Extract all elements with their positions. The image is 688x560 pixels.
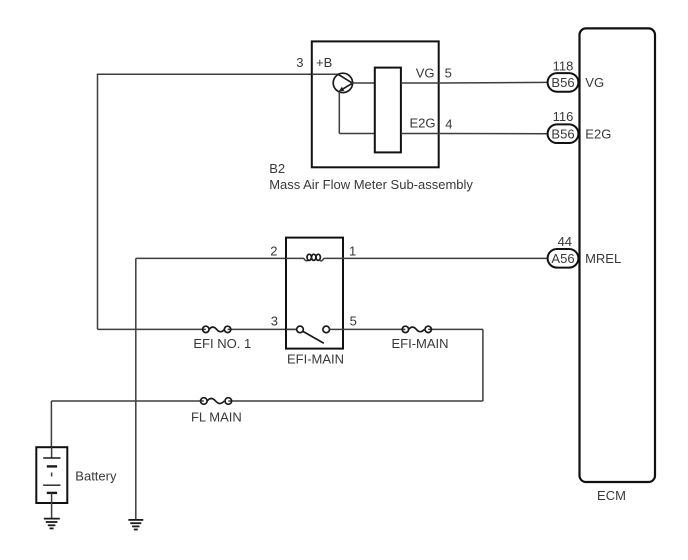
svg-text:4: 4 <box>445 116 452 131</box>
svg-text:E2G: E2G <box>585 127 611 142</box>
relay coil (pins 2-1) <box>286 254 343 261</box>
svg-text:VG: VG <box>585 75 604 90</box>
svg-text:2: 2 <box>270 244 277 259</box>
MAF VG pin label <box>416 66 435 81</box>
svg-text:MREL: MREL <box>585 251 621 266</box>
MAF internal wire circle bottom to element (E2G side) <box>339 92 375 134</box>
MAF internal wire circle to element (VG side) <box>353 82 375 84</box>
connector oval B56 pin VG <box>548 73 579 92</box>
pin number 118 <box>553 58 574 73</box>
svg-text:A56: A56 <box>551 251 574 266</box>
wire vertical ground bus x=136 from relay pin2 wire down to ground <box>135 258 137 519</box>
label relay EFI-MAIN <box>287 351 344 366</box>
wire MREL branch: vertical bus x=136 to relay pin 2 <box>136 257 286 259</box>
relay switch contacts (pins 3-5) <box>286 326 343 343</box>
relay pin 2 number <box>270 244 277 259</box>
MAF sensor B2 box <box>312 41 439 167</box>
svg-text:5: 5 <box>350 313 357 328</box>
ground symbol under x=136 bus <box>128 520 143 530</box>
svg-text:B56: B56 <box>551 126 574 141</box>
svg-text:5: 5 <box>445 66 452 81</box>
connector oval A56 pin MREL <box>548 249 579 268</box>
ECM pin name E2G <box>585 127 611 142</box>
svg-text:+B: +B <box>316 55 332 70</box>
relay pin 5 number <box>350 313 357 328</box>
svg-text:B56: B56 <box>551 75 574 90</box>
wire E2G to ECM connector <box>439 133 548 135</box>
svg-text:3: 3 <box>271 313 278 328</box>
relay EFI-MAIN box <box>286 238 343 349</box>
pin number 44 <box>558 234 572 249</box>
svg-text:3: 3 <box>296 55 303 70</box>
fuse EFI-MAIN (right) <box>402 326 431 332</box>
MAF E2G pin label <box>409 115 435 130</box>
connector oval B56 pin E2G <box>548 124 579 143</box>
svg-text:Battery: Battery <box>75 469 117 484</box>
label Battery <box>75 469 117 484</box>
svg-text:118: 118 <box>553 58 574 73</box>
wire MAF element to E2G output <box>401 133 439 135</box>
svg-text:116: 116 <box>553 109 574 124</box>
svg-text:1: 1 <box>349 244 356 259</box>
svg-text:EFI NO. 1: EFI NO. 1 <box>193 336 251 351</box>
label fuse EFI NO. 1 <box>193 336 251 351</box>
battery cell plates <box>43 447 60 518</box>
label B2 designator <box>269 161 285 176</box>
svg-text:ECM: ECM <box>597 488 626 503</box>
ECM pin name MREL <box>585 251 621 266</box>
wire right vertical drop x=483 <box>482 329 484 401</box>
MAF transistor / hot-wire symbol <box>312 73 353 92</box>
wire relay pin 1 to MREL connector <box>343 257 548 259</box>
label fuse FL MAIN <box>191 410 242 425</box>
svg-text:B2: B2 <box>269 161 285 176</box>
svg-text:E2G: E2G <box>409 115 435 130</box>
wire vertical left bus x=97.5 from +B down to EFI NO.1 wire <box>97 74 99 329</box>
MAF sensing element rect <box>375 68 401 153</box>
ECM box <box>580 28 656 482</box>
pin number 116 <box>553 109 574 124</box>
wire MAF element to VG output <box>401 82 439 84</box>
MAF +B pin label <box>316 55 332 70</box>
svg-text:44: 44 <box>558 234 572 249</box>
wire relay pin 5 to right drop <box>343 328 483 330</box>
wire +B: node1 to MAF pin 3 <box>97 73 312 75</box>
MAF pin 5 number <box>445 66 452 81</box>
wire battery drop x=51.4 <box>50 401 52 447</box>
wire FL MAIN run y=401 <box>51 400 483 402</box>
relay pin 3 number <box>271 313 278 328</box>
svg-text:EFI-MAIN: EFI-MAIN <box>287 351 344 366</box>
svg-text:EFI-MAIN: EFI-MAIN <box>391 336 448 351</box>
wire VG to ECM connector <box>439 81 548 84</box>
label ECM <box>597 488 626 503</box>
svg-text:FL MAIN: FL MAIN <box>191 410 242 425</box>
ECM pin name VG <box>585 75 604 90</box>
fuse FL MAIN (fusible link) <box>201 398 232 405</box>
relay pin 1 number <box>349 244 356 259</box>
svg-text:VG: VG <box>416 66 435 81</box>
ground symbol under battery <box>44 519 60 529</box>
svg-text:Mass Air Flow Meter Sub-assemb: Mass Air Flow Meter Sub-assembly <box>269 177 473 192</box>
label Mass Air Flow Meter Sub-assembly <box>269 177 473 192</box>
wire EFI NO.1 branch: left bus to relay pin 3 <box>98 328 297 330</box>
label fuse EFI-MAIN <box>391 336 448 351</box>
MAF pin 4 number <box>445 116 452 131</box>
MAF pin 3 number <box>296 55 303 70</box>
fuse EFI NO. 1 <box>203 326 231 332</box>
battery box <box>36 447 67 503</box>
